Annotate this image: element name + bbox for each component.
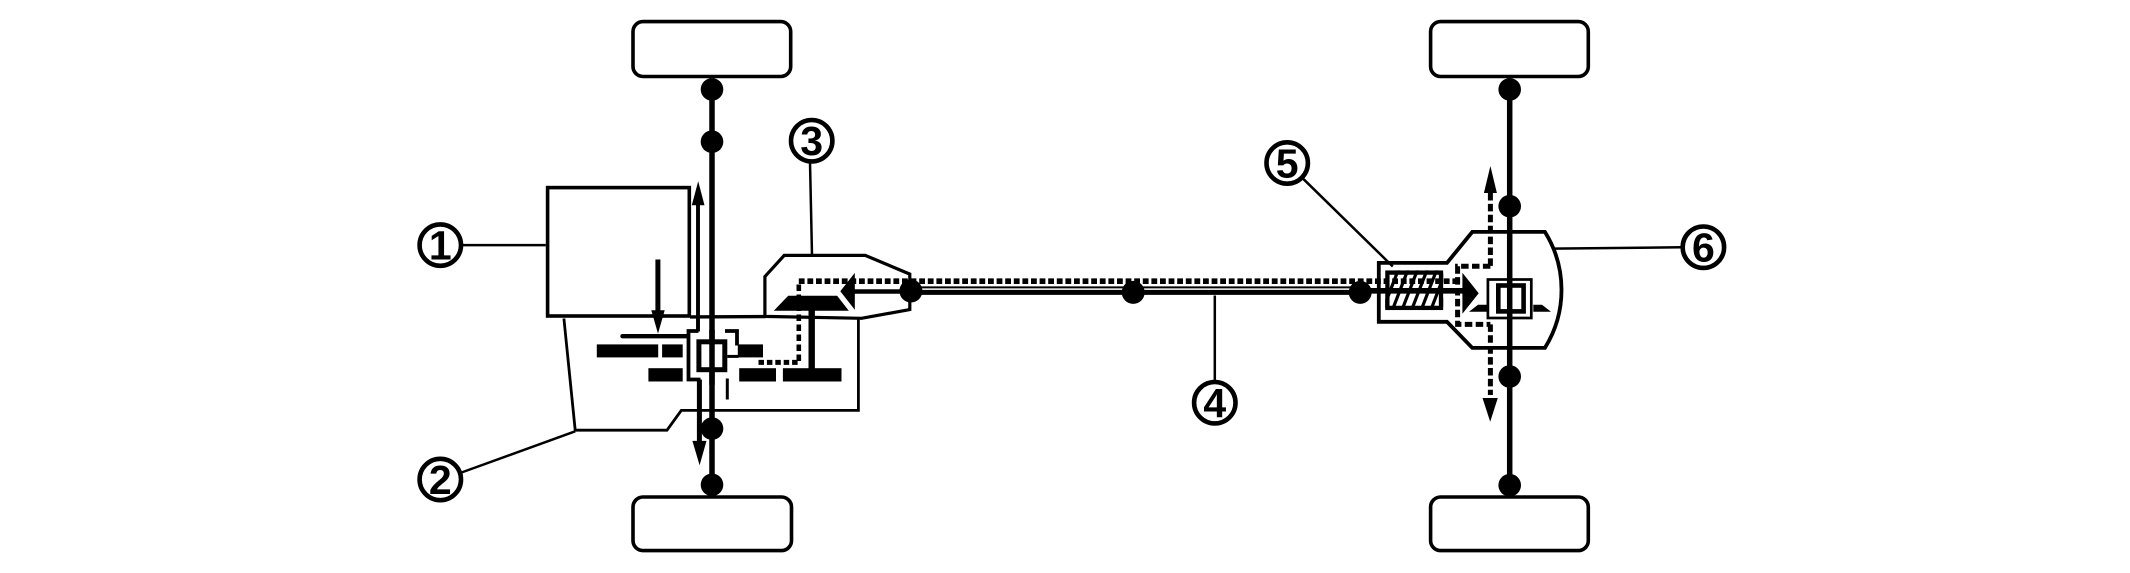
rear axle dot 2 <box>1498 195 1521 218</box>
front axle dot 3 <box>701 417 724 440</box>
rear axle dot 1 <box>1498 78 1521 101</box>
rear diff inner square <box>1498 286 1523 312</box>
rear differential housing (6) <box>1379 232 1562 348</box>
wheel rear-left <box>633 497 792 551</box>
dashed vertical in transfer <box>796 285 801 363</box>
front diff center square <box>699 342 725 370</box>
engine bottom extension line <box>690 315 766 319</box>
rear axle dot 3 <box>1498 365 1521 388</box>
callout 6 leader <box>1553 247 1682 248</box>
svg-text:6: 6 <box>1692 225 1715 271</box>
callout 5 <box>1267 142 1308 183</box>
transfer case (3) <box>765 255 910 318</box>
propeller shaft thick line <box>911 290 1361 295</box>
callout 2 <box>420 459 461 500</box>
rear axle through diff <box>1507 231 1513 349</box>
gear bar A <box>597 344 658 357</box>
callout 3 <box>791 120 832 161</box>
engine box (1) <box>548 188 690 316</box>
rear dashed up line <box>1488 193 1493 266</box>
svg-text:4: 4 <box>1203 380 1226 426</box>
svg-text:3: 3 <box>800 118 823 164</box>
callout 1 <box>420 224 461 265</box>
transfer bevel gear trapezoid <box>774 296 850 311</box>
gear bar C <box>738 344 763 357</box>
rear diff input arrowhead <box>1462 273 1478 314</box>
rear dashed C-path <box>1458 266 1491 324</box>
callout 1 leader <box>462 244 546 247</box>
wheel front-left <box>633 22 791 77</box>
transfer left arrowhead <box>840 273 855 310</box>
rear diff right gear wedge <box>1533 305 1551 312</box>
callout 4 <box>1194 382 1235 423</box>
front output down arrow <box>697 380 702 443</box>
callout 3 leader <box>810 162 812 255</box>
rear diff left gear wedge <box>1469 305 1488 312</box>
wheel front-right <box>1431 22 1589 77</box>
transmission outline (2) <box>564 317 859 430</box>
shaft through coupling <box>1361 288 1463 294</box>
rear up arrowhead <box>1484 166 1497 193</box>
right short line <box>727 355 738 358</box>
svg-text:5: 5 <box>1276 140 1299 186</box>
callout 6 <box>1683 227 1724 268</box>
callout 4 leader <box>1214 296 1217 382</box>
gear bar E <box>739 368 776 381</box>
power flow dashed line front-to-rear along propeller shaft <box>799 278 1458 284</box>
gear bar F <box>783 368 842 381</box>
gear bar B <box>662 344 683 357</box>
shaft joint dot middle <box>1122 281 1145 304</box>
callout 5 leader <box>1303 178 1393 266</box>
front axle through gearbox <box>709 330 715 385</box>
front axle <box>709 78 715 496</box>
front axle dot 4 <box>701 474 724 497</box>
dashed horizontal in transmission <box>759 360 799 365</box>
left bracket outline <box>689 331 701 380</box>
front output up arrow <box>696 205 700 332</box>
rear axle dot 4 <box>1498 474 1521 497</box>
input shaft thin bar <box>623 334 688 338</box>
svg-text:2: 2 <box>429 457 452 503</box>
right lower vertical <box>726 379 729 400</box>
front axle dot 1 <box>701 78 724 101</box>
engine torque down arrow <box>655 260 660 313</box>
white slit between trapezoid and arrowhead <box>837 293 852 312</box>
rear axle <box>1507 78 1513 496</box>
shaft stub into transfer <box>854 289 912 293</box>
callout 2 leader <box>462 431 576 472</box>
gear bar D <box>648 368 682 381</box>
shaft joint dot left <box>899 280 922 303</box>
transfer output shaft <box>809 309 815 369</box>
rear down arrowhead <box>1483 398 1498 422</box>
coupling hatched box (5) <box>1387 273 1441 308</box>
rear diff outer square <box>1488 280 1531 319</box>
wheel rear-right <box>1431 497 1589 551</box>
front axle dot 2 <box>701 130 724 153</box>
right bracket outline top <box>725 331 737 346</box>
rear dashed down line <box>1488 324 1493 395</box>
shaft joint dot right <box>1349 281 1372 304</box>
propeller shaft thin line (4) <box>911 286 1361 288</box>
svg-text:1: 1 <box>429 223 452 269</box>
